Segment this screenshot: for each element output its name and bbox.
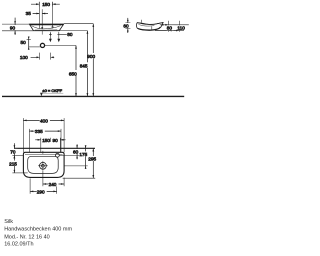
extension line from 150 left tick to basin — [38, 7, 40, 29]
drain tick on side view — [151, 26, 153, 30]
svg-text:240: 240 — [49, 182, 57, 187]
plan view dimension 335 — [29, 129, 61, 134]
svg-text:60: 60 — [123, 24, 129, 29]
supply connection right arrow — [57, 32, 60, 42]
basin front view bowl curve — [32, 26, 61, 29]
svg-text:335: 335 — [35, 129, 43, 134]
dimension 60 label plan — [73, 149, 80, 154]
dimension 295 label — [88, 156, 98, 161]
extension line 215 bottom — [12, 172, 27, 174]
overflow tick plan — [42, 151, 44, 154]
svg-text:60: 60 — [73, 150, 79, 155]
svg-text:90: 90 — [10, 26, 16, 31]
extension lines 240 — [43, 171, 64, 186]
svg-text:150: 150 — [42, 138, 50, 143]
dimension 100 leader arrow — [31, 53, 55, 60]
dimension 60 label — [123, 23, 131, 28]
dimension 845 label — [79, 62, 89, 68]
svg-text:35: 35 — [26, 11, 32, 16]
basin side view inner bowl line — [139, 24, 155, 26]
svg-text:±0 = OKFF: ±0 = OKFF — [42, 88, 62, 93]
plan view outer outline — [23, 152, 64, 177]
dimension 295 plan right — [92, 148, 94, 178]
extension line drain to 175 — [64, 165, 87, 167]
tap hole plan — [56, 153, 60, 157]
supply connection left arrow — [49, 32, 52, 42]
basin front view outline — [29, 24, 63, 31]
dimension 215 arrows — [14, 155, 16, 173]
basin side view bottom thick line — [138, 27, 160, 30]
extension line 35 right to basin drain — [41, 9, 43, 28]
basin side view outline — [137, 23, 164, 31]
svg-text:Silk: Silk — [4, 219, 13, 225]
svg-text:845: 845 — [80, 64, 88, 69]
extension lines 335 — [29, 133, 61, 152]
basin side view rim thick line — [137, 23, 163, 25]
basin front view rim (thick top edge) — [29, 24, 63, 26]
dimension 400 label — [40, 118, 50, 123]
dimension 70 label — [10, 149, 17, 154]
svg-text:100: 100 — [20, 55, 28, 60]
svg-text:150: 150 — [42, 2, 50, 7]
svg-text:80: 80 — [67, 32, 73, 37]
dimension 35 line — [33, 13, 48, 15]
svg-text:Mod.- Nr. 12 16 40: Mod.- Nr. 12 16 40 — [4, 234, 50, 240]
dimension line B (110) side view — [155, 30, 184, 32]
floor line — [2, 95, 184, 97]
side view tick 1 — [168, 21, 170, 32]
svg-text:70: 70 — [10, 149, 16, 154]
plan view dimension 150-90 — [35, 138, 65, 142]
floor level marker triangle — [40, 93, 43, 96]
drain stub below basin — [41, 31, 43, 35]
wall line plan view — [14, 147, 95, 149]
dimension 335 label — [35, 129, 45, 134]
dimension 90 label — [10, 25, 18, 30]
dimension 290 label — [37, 189, 47, 194]
dimension 110 label side view — [177, 25, 186, 30]
dimension 60 plan right — [76, 144, 78, 159]
drain plan cross — [38, 161, 48, 171]
dimension line 845 vertical — [87, 31, 89, 97]
drain plan outer — [40, 162, 47, 169]
extension line tap to 60 — [59, 154, 79, 156]
dimension line 900 vertical — [92, 24, 94, 97]
dimension 70 vertical line — [14, 143, 16, 173]
svg-text:50: 50 — [21, 40, 27, 45]
dimension 215 label — [9, 161, 19, 166]
extension line tap hole center — [51, 7, 53, 27]
dimension 900 label — [87, 53, 97, 59]
dimension 290 — [30, 191, 56, 193]
plan view rim line — [25, 154, 63, 156]
svg-text:80: 80 — [167, 26, 173, 31]
dimension 240 — [43, 183, 64, 185]
right side view: dimension 60 vertical — [125, 18, 130, 33]
basin front view inner bottom line — [35, 29, 57, 31]
extension line B basin bottom to 845 — [58, 30, 88, 32]
svg-text:215: 215 — [9, 161, 17, 166]
extension lines 150-90 — [41, 142, 61, 152]
svg-text:400: 400 — [40, 118, 48, 123]
dimension 50 vertical line — [27, 37, 40, 50]
svg-text:650: 650 — [69, 71, 77, 76]
dimension 240 label — [48, 181, 58, 186]
svg-text:Handwaschbecken 400 mm: Handwaschbecken 400 mm — [4, 227, 72, 233]
dimension 650 label — [69, 70, 79, 76]
svg-text:295: 295 — [88, 157, 96, 162]
plan view inner bowl — [28, 156, 59, 173]
dimension line A (80) side view — [160, 24, 189, 26]
plan view dimension 400 — [23, 118, 64, 123]
tap hole tick on side view — [141, 20, 143, 23]
side view tick 2 — [178, 21, 180, 32]
dimension 90 vertical line — [14, 18, 16, 35]
extension line 70 bottom — [12, 154, 23, 156]
tap hole mark in front view — [51, 26, 54, 29]
dimension 175 plan right — [85, 145, 87, 169]
extension line C drain circle to 650 — [45, 45, 76, 47]
svg-text:900: 900 — [87, 54, 95, 59]
dimension 150 line — [31, 2, 60, 7]
extension lines 400 — [23, 123, 64, 153]
dimension 80 label side view — [167, 25, 174, 30]
svg-text:110: 110 — [177, 26, 185, 31]
extension lines for 90 — [2, 24, 33, 31]
drain plan inner — [42, 164, 45, 167]
svg-text:90: 90 — [53, 138, 59, 143]
svg-text:175: 175 — [79, 152, 87, 157]
svg-text:16.02.09/Th: 16.02.09/Th — [4, 241, 33, 247]
drain mark in front view — [41, 27, 43, 29]
svg-text:290: 290 — [37, 189, 45, 194]
extension line A basin top to 900 — [64, 23, 94, 25]
extension line front edge to 295 — [63, 177, 96, 179]
drain pipe circle — [40, 43, 44, 47]
dimension line 650 vertical — [75, 46, 77, 97]
extension lines 290 — [30, 178, 56, 193]
dimension 175 label — [79, 151, 89, 156]
dimension 80 line between supplies — [49, 33, 67, 36]
